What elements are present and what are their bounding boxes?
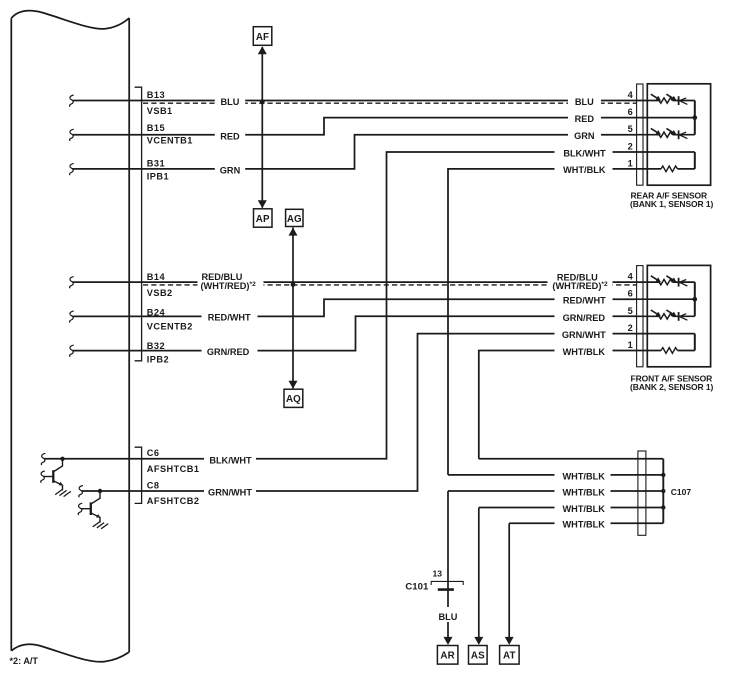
svg-text:AR: AR	[440, 651, 454, 662]
svg-text:IPB2: IPB2	[147, 354, 169, 364]
svg-text:AF: AF	[256, 32, 269, 43]
svg-text:(WHT/RED)*2: (WHT/RED)*2	[552, 281, 608, 291]
svg-text:VCENTB2: VCENTB2	[147, 321, 193, 331]
svg-text:BLU: BLU	[438, 612, 457, 622]
svg-text:GRN/RED: GRN/RED	[207, 347, 250, 357]
svg-text:B31: B31	[147, 159, 165, 169]
svg-text:BLK/WHT: BLK/WHT	[563, 148, 606, 158]
svg-text:*2: A/T: *2: A/T	[10, 656, 39, 666]
svg-text:B24: B24	[147, 307, 166, 317]
svg-text:B14: B14	[147, 272, 166, 282]
svg-text:RED: RED	[575, 114, 595, 124]
svg-text:AQ: AQ	[286, 394, 301, 405]
svg-text:WHT/BLK: WHT/BLK	[563, 165, 606, 175]
svg-text:RED: RED	[220, 131, 240, 141]
svg-text:AG: AG	[287, 214, 302, 225]
svg-text:(BANK 1, SENSOR 1): (BANK 1, SENSOR 1)	[630, 199, 713, 209]
svg-text:VSB2: VSB2	[147, 288, 173, 298]
svg-text:RED/WHT: RED/WHT	[563, 296, 606, 306]
svg-text:BLU: BLU	[575, 97, 594, 107]
svg-text:WHT/BLK: WHT/BLK	[563, 487, 606, 497]
svg-text:WHT/BLK: WHT/BLK	[563, 504, 606, 514]
svg-text:VSB1: VSB1	[147, 106, 173, 116]
svg-text:GRN/WHT: GRN/WHT	[208, 488, 252, 498]
svg-text:BLK/WHT: BLK/WHT	[209, 455, 252, 465]
svg-text:AT: AT	[503, 651, 516, 662]
svg-text:VCENTB1: VCENTB1	[147, 136, 193, 146]
svg-text:(BANK 2, SENSOR 1): (BANK 2, SENSOR 1)	[630, 382, 713, 392]
svg-text:B32: B32	[147, 341, 165, 351]
svg-text:BLU: BLU	[221, 97, 240, 107]
svg-text:C6: C6	[147, 448, 160, 458]
svg-text:(WHT/RED)*2: (WHT/RED)*2	[201, 281, 257, 291]
svg-text:GRN/RED: GRN/RED	[563, 313, 606, 323]
svg-text:WHT/BLK: WHT/BLK	[563, 347, 606, 357]
svg-text:RED/WHT: RED/WHT	[208, 312, 251, 322]
svg-text:C107: C107	[671, 487, 692, 497]
svg-text:GRN: GRN	[574, 131, 595, 141]
svg-text:GRN/WHT: GRN/WHT	[562, 330, 606, 340]
svg-text:AS: AS	[471, 651, 485, 662]
svg-text:WHT/BLK: WHT/BLK	[563, 471, 606, 481]
svg-text:GRN: GRN	[220, 166, 241, 176]
svg-text:13: 13	[432, 569, 442, 579]
svg-text:B13: B13	[147, 90, 165, 100]
svg-text:IPB1: IPB1	[147, 171, 169, 181]
svg-text:WHT/BLK: WHT/BLK	[563, 520, 606, 530]
svg-text:AFSHTCB1: AFSHTCB1	[147, 464, 200, 474]
svg-text:B15: B15	[147, 123, 165, 133]
svg-text:AP: AP	[256, 214, 270, 225]
svg-text:AFSHTCB2: AFSHTCB2	[147, 496, 200, 506]
svg-text:C8: C8	[147, 480, 160, 490]
svg-text:C101: C101	[405, 581, 429, 592]
